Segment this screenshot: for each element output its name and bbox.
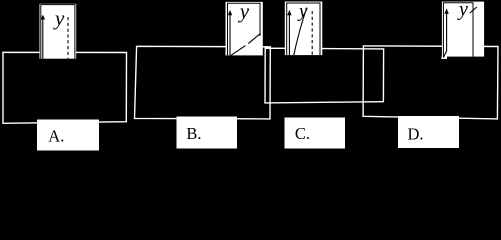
label box C	[285, 118, 346, 149]
y-axis arrow A	[42, 19, 44, 59]
svg-text:C.: C.	[295, 124, 310, 143]
graph box A (white)	[40, 4, 77, 59]
stray tick D top-right	[470, 7, 477, 13]
dashed line A	[67, 17, 69, 59]
y-axis arrow C	[288, 14, 290, 55]
diagonal line B segment 1	[231, 46, 246, 56]
outlined frame rect option C	[265, 48, 384, 103]
label box B	[177, 117, 238, 149]
outlined frame rect option D	[363, 46, 498, 119]
graph box D black border (open bottom)	[443, 3, 473, 57]
outlined frame rect option A	[3, 52, 127, 123]
label box A	[37, 120, 99, 151]
curve D (tail near origin)	[443, 51, 446, 58]
graph box C black border (open bottom)	[287, 3, 320, 55]
diagonal line B segment 2	[248, 33, 260, 43]
svg-text:D.: D.	[408, 124, 424, 143]
svg-text:y: y	[457, 0, 468, 20]
curve C	[294, 8, 307, 56]
svg-text:A.: A.	[48, 126, 64, 145]
svg-text:y: y	[238, 0, 250, 23]
dashed line C	[311, 11, 313, 55]
graph box A black border (open bottom)	[41, 5, 75, 59]
graph box B black border (open bottom)	[228, 3, 261, 55]
y-axis arrow B	[229, 14, 231, 55]
y-axis arrow D	[446, 13, 448, 51]
graph box D bottom-left protrusion	[442, 57, 448, 60]
svg-text:y: y	[53, 6, 65, 30]
graph box D (white)	[442, 2, 484, 57]
graph box C (white)	[285, 2, 323, 56]
graph box B (white)	[226, 2, 263, 56]
label box D	[398, 116, 459, 148]
outlined frame rect option B	[135, 46, 271, 119]
svg-text:y: y	[297, 1, 308, 22]
svg-text:B.: B.	[186, 124, 201, 143]
